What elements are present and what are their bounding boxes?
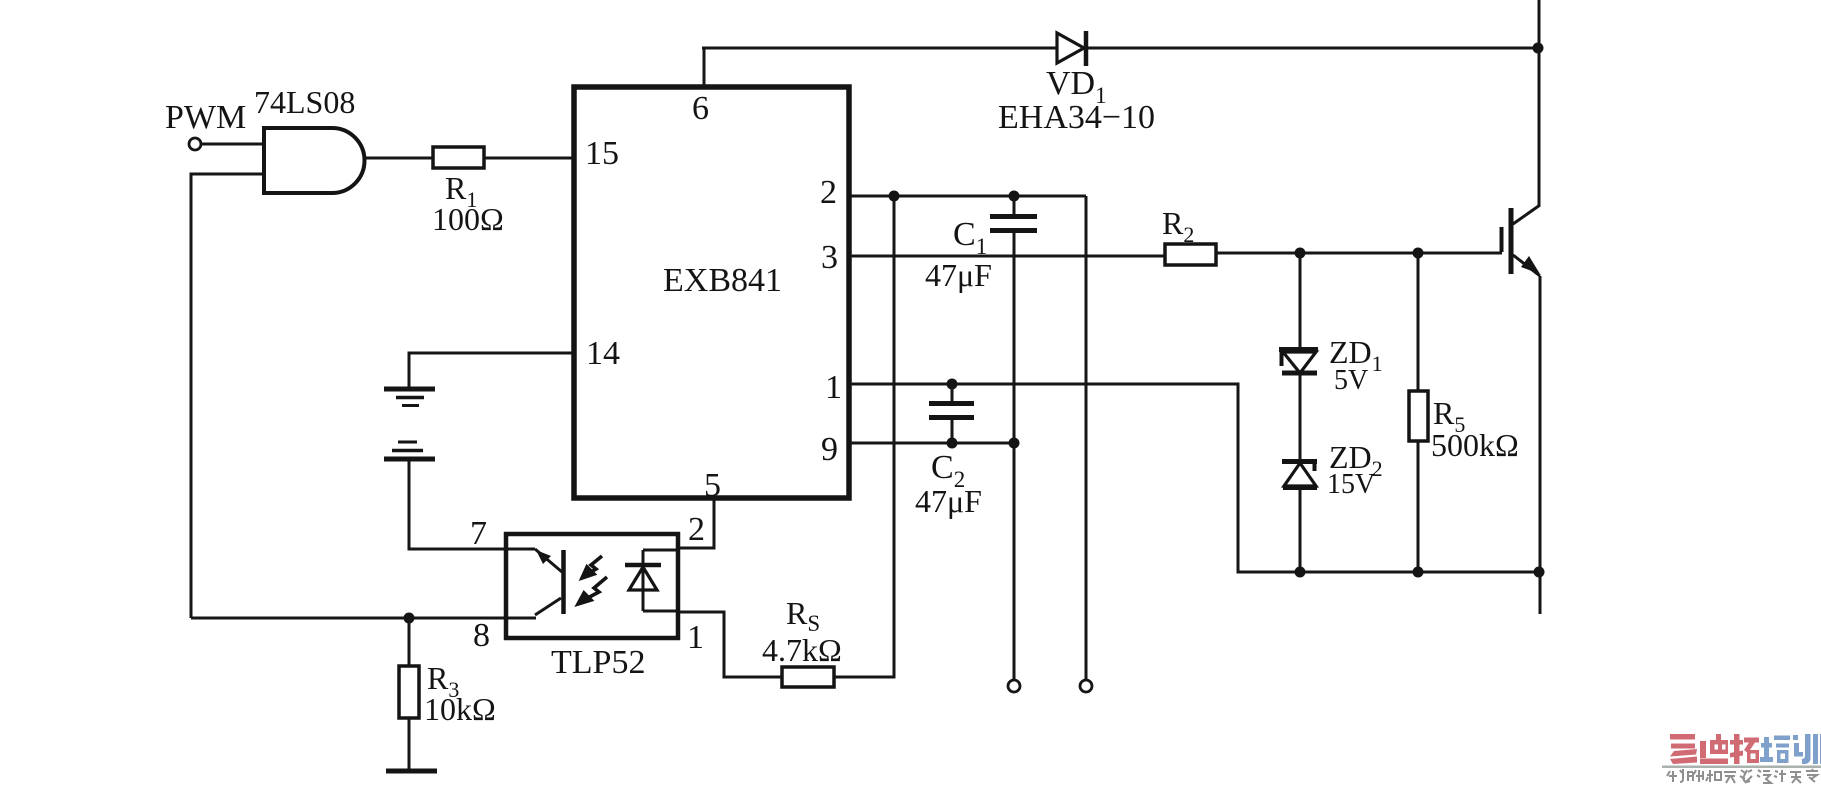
node PWM input terminal [189, 138, 201, 150]
wire pin3 to R2 [849, 255, 1165, 258]
zener ZD2 [1282, 462, 1317, 488]
watermark underline [1662, 766, 1821, 769]
svg-text:9: 9 [821, 431, 838, 468]
svg-text:TLP52: TLP52 [551, 644, 645, 681]
capacitor C1 [990, 196, 1037, 680]
svg-text:1: 1 [825, 369, 842, 406]
wire junction to R3 [408, 618, 411, 666]
watermark logo char tuo [1730, 734, 1759, 764]
watermark logo char pei [1760, 736, 1790, 764]
wire pin1 output [849, 384, 1301, 572]
svg-text:2: 2 [820, 174, 837, 211]
resistor R1 [433, 147, 484, 168]
svg-text:3: 3 [821, 239, 838, 276]
svg-text:EXB841: EXB841 [663, 262, 782, 299]
svg-text:2: 2 [688, 511, 705, 548]
wire pin14 to ground [409, 353, 574, 388]
led of TLP52 [625, 550, 678, 611]
svg-text:74LS08: 74LS08 [254, 84, 355, 120]
node junction C2 bottom [947, 438, 958, 449]
wire R5 branch upper [1417, 253, 1420, 391]
optocoupler U3 TLP52 body [506, 534, 678, 638]
node junction base-ZD [1295, 248, 1306, 259]
wire pin8 horizontal [191, 617, 505, 620]
wire RS up to pin2 rail [834, 196, 894, 677]
wire ZD1 to ZD2 [1299, 375, 1302, 460]
svg-text:15V: 15V [1327, 469, 1375, 500]
svg-text:100Ω: 100Ω [432, 201, 504, 237]
wire top rail right of VD1 [1088, 47, 1540, 50]
node terminal right [1080, 680, 1092, 692]
battery (floating supply lower) [384, 442, 435, 459]
wire pin2 rail [849, 195, 1086, 198]
node junction pin2-RS [889, 191, 900, 202]
svg-text:PWM: PWM [165, 99, 246, 136]
and-gate U1 74LS08 [264, 128, 365, 193]
wire R5 branch lower [1417, 441, 1420, 572]
zener ZD1 [1279, 253, 1318, 373]
wire top rail left of VD1 [702, 47, 1057, 50]
capacitor C2 [929, 384, 974, 443]
svg-text:14: 14 [586, 335, 620, 372]
wire pin6 vertical [703, 48, 706, 87]
svg-text:5V: 5V [1334, 365, 1368, 396]
node junction R3 tap [404, 613, 415, 624]
wire R3 to ground [408, 718, 411, 769]
wire feedback vertical to gate input B [191, 174, 263, 618]
node junction bus-ZD [1295, 567, 1306, 578]
wire PWM to gate input A [202, 143, 263, 146]
svg-text:EHA34−10: EHA34−10 [998, 99, 1155, 136]
IGBT Q1 [1502, 0, 1541, 614]
svg-text:8: 8 [473, 617, 490, 654]
resistor R5 [1409, 391, 1428, 441]
watermark logo char yi [1670, 734, 1697, 764]
svg-text:4.7kΩ: 4.7kΩ [762, 632, 842, 668]
wire pin5 vertical from EXB [678, 498, 714, 548]
resistor RS [782, 667, 834, 687]
node junction bus-R5 [1413, 567, 1424, 578]
wire right vertical to terminal [1085, 196, 1088, 680]
wire pin9 [849, 442, 1014, 445]
node junction top collector [1533, 43, 1544, 54]
diode VD1 [1057, 31, 1086, 66]
node junction pin2-C1 [1009, 191, 1020, 202]
wire R2 to gate [1216, 252, 1502, 255]
wire TLP52 pin1 to RS [678, 612, 782, 677]
svg-text:15: 15 [585, 135, 619, 172]
node terminal left [1008, 680, 1020, 692]
node junction base-R5 [1413, 248, 1424, 259]
node junction C2 top [947, 379, 958, 390]
svg-text:10kΩ: 10kΩ [424, 691, 496, 727]
svg-text:1: 1 [687, 619, 704, 656]
svg-text:7: 7 [470, 515, 487, 552]
wire ZD2 to bottom bus [1299, 489, 1302, 572]
wire gate output to R1 [364, 157, 433, 160]
node junction pin9-C1 [1009, 438, 1020, 449]
watermark logo char di [1700, 734, 1728, 764]
resistor R2 [1165, 244, 1216, 265]
svg-text:47μF: 47μF [915, 483, 982, 519]
ground R3 [386, 769, 437, 774]
wire battery to TLP52 pin7 [409, 461, 505, 549]
resistor R3 [399, 666, 419, 718]
ground (floating supply upper) [384, 389, 435, 406]
watermark subtitle she-pin-he-tian-xian-she-ji-zhuan-jia [1667, 769, 1818, 783]
svg-text:47μF: 47μF [925, 257, 992, 293]
IC U2 EXB841 body [574, 87, 849, 498]
light arrows [578, 556, 607, 604]
node junction bus-emitter [1534, 567, 1545, 578]
svg-text:500kΩ: 500kΩ [1431, 427, 1519, 463]
watermark logo char xun [1793, 734, 1821, 764]
svg-text:6: 6 [692, 90, 709, 127]
wire R1 to pin15 [484, 157, 574, 160]
wire bottom bus [1301, 571, 1540, 574]
phototransistor of TLP52 [506, 549, 564, 618]
